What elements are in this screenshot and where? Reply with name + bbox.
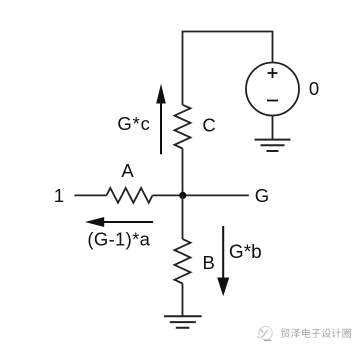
- svg-text:1: 1: [54, 185, 64, 206]
- current arrow (G-1)*a pointing left: [104, 221, 153, 223]
- node G junction dot: [179, 192, 186, 199]
- svg-text:G: G: [255, 185, 269, 206]
- resistor A: [107, 188, 153, 203]
- wire top from node above resistor C to voltage source top: [183, 32, 273, 105]
- resistor C: [175, 105, 191, 149]
- ground below resistor B: [164, 316, 202, 327]
- wire from voltage source bottom to ground: [272, 116, 274, 140]
- svg-text:G*c: G*c: [117, 113, 150, 134]
- svg-text:A: A: [121, 160, 134, 181]
- svg-text:B: B: [203, 252, 215, 273]
- watermark text 贸泽电子设计圈: [281, 328, 351, 338]
- resistor B: [175, 239, 191, 284]
- ground below voltage source: [255, 140, 291, 151]
- wire from resistor A to net G: [153, 194, 249, 196]
- current arrow G*c pointing up: [160, 101, 162, 154]
- voltage source V0 circle: [246, 63, 299, 116]
- wire from port 1 to resistor A: [74, 194, 106, 196]
- svg-text:0: 0: [309, 78, 319, 99]
- wire from node G to resistor B: [182, 195, 184, 239]
- wire from resistor B bottom to ground: [182, 284, 184, 316]
- svg-text:(G-1)*a: (G-1)*a: [87, 229, 150, 250]
- svg-text:G*b: G*b: [229, 242, 262, 263]
- svg-text:C: C: [202, 115, 215, 136]
- wire from resistor C bottom to node G: [182, 149, 184, 196]
- voltage source minus sign: [267, 100, 278, 102]
- watermark logo circle: [258, 326, 273, 340]
- voltage source plus sign: [268, 68, 278, 78]
- current arrow G*b pointing down: [222, 226, 224, 278]
